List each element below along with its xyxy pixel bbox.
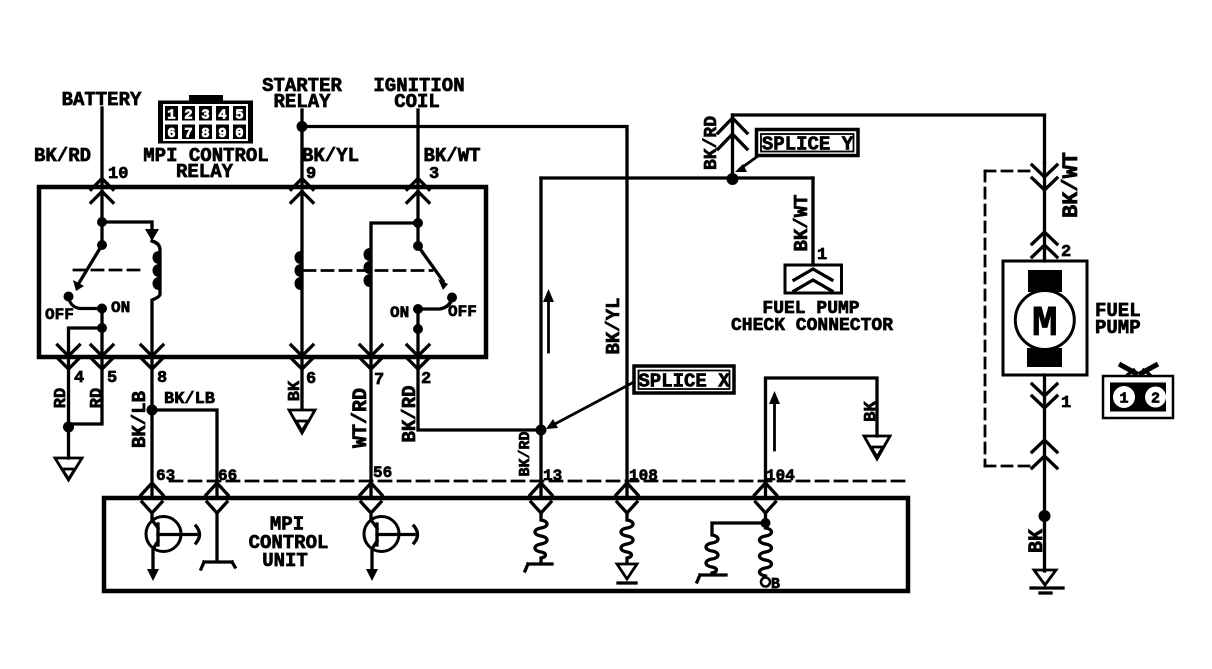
svg-text:BK: BK	[862, 401, 881, 422]
svg-text:M: M	[1032, 299, 1058, 348]
svg-text:BK: BK	[1026, 529, 1049, 553]
svg-text:BK/WT: BK/WT	[1059, 152, 1084, 218]
svg-text:6: 6	[167, 126, 175, 142]
svg-text:9: 9	[218, 126, 226, 142]
svg-text:6: 6	[306, 370, 316, 389]
svg-text:ON: ON	[390, 304, 409, 322]
svg-text:4: 4	[74, 369, 84, 388]
svg-text:8: 8	[201, 126, 209, 142]
svg-text:9: 9	[306, 165, 316, 184]
svg-text:108: 108	[629, 467, 658, 485]
svg-text:10: 10	[108, 165, 128, 184]
svg-text:BK/YL: BK/YL	[603, 297, 625, 354]
svg-text:BK: BK	[286, 380, 305, 401]
svg-text:PUMP: PUMP	[1095, 317, 1141, 339]
svg-text:8: 8	[157, 369, 167, 388]
svg-text:2: 2	[421, 370, 431, 389]
svg-text:2: 2	[1061, 243, 1071, 262]
svg-text:4: 4	[218, 108, 226, 124]
svg-text:3: 3	[429, 165, 439, 184]
svg-text:5: 5	[235, 108, 243, 124]
svg-text:BK/RD: BK/RD	[399, 385, 421, 442]
svg-text:BK/WT: BK/WT	[423, 145, 480, 167]
svg-text:BK/LB: BK/LB	[164, 390, 215, 409]
svg-text:104: 104	[766, 467, 795, 485]
svg-text:2: 2	[184, 108, 192, 124]
svg-text:1: 1	[167, 108, 175, 124]
svg-text:SPLICE Y: SPLICE Y	[762, 134, 854, 156]
svg-text:BK/YL: BK/YL	[302, 145, 359, 167]
svg-text:1: 1	[1119, 391, 1128, 408]
svg-text:OFF: OFF	[45, 306, 74, 324]
svg-text:1: 1	[1061, 394, 1071, 413]
svg-text:SPLICE X: SPLICE X	[638, 371, 730, 393]
svg-text:UNIT: UNIT	[262, 550, 308, 572]
svg-text:3: 3	[201, 108, 209, 124]
svg-text:B: B	[771, 576, 780, 593]
svg-text:COIL: COIL	[394, 91, 440, 113]
svg-text:0: 0	[235, 126, 243, 142]
svg-text:56: 56	[373, 464, 392, 482]
svg-text:2: 2	[1151, 391, 1160, 408]
svg-text:63: 63	[156, 467, 175, 485]
svg-text:BK/RD: BK/RD	[517, 431, 534, 476]
svg-text:7: 7	[184, 126, 192, 142]
svg-text:7: 7	[374, 371, 384, 390]
svg-text:OFF: OFF	[448, 303, 477, 321]
svg-text:5: 5	[107, 369, 117, 388]
svg-text:BATTERY: BATTERY	[62, 89, 142, 111]
svg-text:CHECK CONNECTOR: CHECK CONNECTOR	[731, 316, 893, 336]
svg-text:ON: ON	[111, 299, 130, 317]
svg-text:1: 1	[817, 246, 827, 265]
svg-text:BK/RD: BK/RD	[702, 116, 722, 170]
svg-text:66: 66	[218, 467, 237, 485]
svg-text:13: 13	[543, 467, 562, 485]
svg-text:BK/LB: BK/LB	[129, 391, 151, 448]
svg-text:RELAY: RELAY	[273, 91, 331, 113]
svg-text:RD: RD	[52, 388, 71, 408]
svg-text:BK/WT: BK/WT	[791, 194, 813, 251]
svg-text:BK/RD: BK/RD	[34, 145, 91, 167]
svg-text:RD: RD	[88, 388, 107, 408]
svg-text:WT/RD: WT/RD	[350, 388, 373, 448]
svg-text:RELAY: RELAY	[176, 161, 234, 183]
